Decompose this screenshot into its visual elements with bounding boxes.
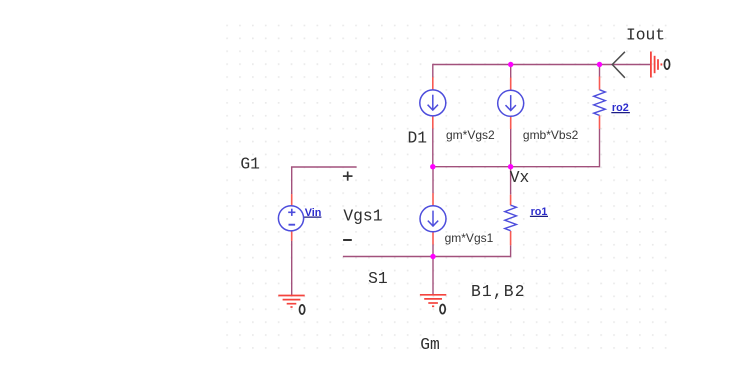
svg-text:gm*Vgs2: gm*Vgs2 <box>446 128 495 142</box>
wire CS3 upper <box>432 167 434 194</box>
resistor ro1 <box>505 195 517 246</box>
wire CS2 upper <box>510 65 512 79</box>
svg-text:S1: S1 <box>368 269 388 288</box>
wire CS2 lower <box>510 128 512 167</box>
wire ro1 upper <box>510 167 512 195</box>
junction node dot Vx left <box>430 164 435 169</box>
junction node dot Vx mid <box>508 164 513 169</box>
Iout arrow <box>612 52 625 78</box>
current source G2 gm*Vgs2 <box>420 77 446 128</box>
junction node dot top ro2 <box>597 62 602 67</box>
wire S node to ground <box>432 257 434 295</box>
wire CS1 lower to Vx <box>432 128 434 167</box>
wire CS3 lower <box>432 244 434 257</box>
svg-text:gmb*Vbs2: gmb*Vbs2 <box>523 128 579 142</box>
label 0 under Vin <box>300 305 305 314</box>
ground 0 bars at Iout <box>651 52 662 78</box>
svg-text:D1: D1 <box>408 129 428 148</box>
resistor ro2 <box>594 77 606 129</box>
label plus Vgs1 <box>343 172 353 181</box>
svg-text:G1: G1 <box>240 155 260 174</box>
label 0 at Iout bars <box>664 60 669 70</box>
current source G1 gm*Vgs1 <box>420 193 446 244</box>
wire bottom source rail S1 <box>343 256 511 258</box>
voltage source Vin <box>278 194 303 241</box>
current source G3 gmb*Vbs2 <box>498 78 524 129</box>
wire Vin to ground <box>291 241 293 296</box>
wire ro2 upper <box>599 65 601 77</box>
svg-text:gm*Vgs1: gm*Vgs1 <box>445 231 494 245</box>
label minus Vgs1 <box>343 239 352 241</box>
ground 0 under S1 <box>420 295 446 307</box>
label Vin <box>304 207 321 219</box>
svg-text:Vx: Vx <box>510 168 530 187</box>
label ro2 <box>611 102 630 114</box>
svg-text:B1,B2: B1,B2 <box>471 282 525 301</box>
ground 0 under Vin <box>278 296 304 308</box>
wire CS1 upper lead stub <box>432 64 434 78</box>
svg-text:Gm: Gm <box>420 335 440 354</box>
wire ro2 lower with corner to Vx rail <box>433 129 600 167</box>
label ro1 <box>530 206 548 218</box>
wire ro1 lower corner <box>510 245 512 257</box>
label 0 under S1 <box>440 305 445 314</box>
svg-text:Iout: Iout <box>626 26 665 45</box>
svg-text:Vgs1: Vgs1 <box>343 207 382 226</box>
junction node dot top CS2 <box>508 62 513 67</box>
wire G1 horizontal <box>292 167 357 194</box>
junction node dot S1 <box>430 254 435 259</box>
wire top rail node D2 <box>433 64 650 66</box>
